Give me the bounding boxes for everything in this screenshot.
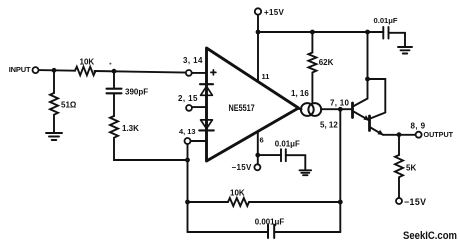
svg-text:OUTPUT: OUTPUT	[424, 130, 454, 139]
svg-text:5, 12: 5, 12	[320, 121, 338, 130]
svg-text:+15V: +15V	[264, 8, 284, 17]
svg-text:11: 11	[262, 72, 270, 81]
svg-text:SeekIC.com: SeekIC.com	[403, 230, 457, 242]
svg-text:1, 16: 1, 16	[291, 89, 309, 98]
svg-text:0.01μF: 0.01μF	[374, 16, 398, 25]
svg-text:7, 10: 7, 10	[330, 98, 350, 107]
svg-text:10K: 10K	[80, 57, 95, 66]
svg-text:1.3K: 1.3K	[122, 124, 139, 133]
svg-text:3, 14: 3, 14	[183, 56, 203, 65]
svg-text:0.01μF: 0.01μF	[275, 140, 300, 149]
svg-text:NE5517: NE5517	[229, 103, 255, 113]
svg-text:10K: 10K	[230, 188, 245, 197]
svg-text:4, 13: 4, 13	[179, 127, 195, 136]
svg-text:−15V: −15V	[232, 163, 252, 172]
svg-text:0.001μF: 0.001μF	[255, 218, 285, 227]
svg-text:6: 6	[260, 135, 264, 144]
svg-text:51Ω: 51Ω	[61, 100, 77, 109]
svg-text:2, 15: 2, 15	[178, 94, 198, 103]
svg-text:−15V: −15V	[404, 197, 426, 207]
svg-text:62K: 62K	[319, 58, 334, 67]
svg-text:5K: 5K	[406, 163, 416, 172]
svg-text:390pF: 390pF	[125, 88, 148, 97]
svg-text:INPUT: INPUT	[9, 65, 31, 74]
